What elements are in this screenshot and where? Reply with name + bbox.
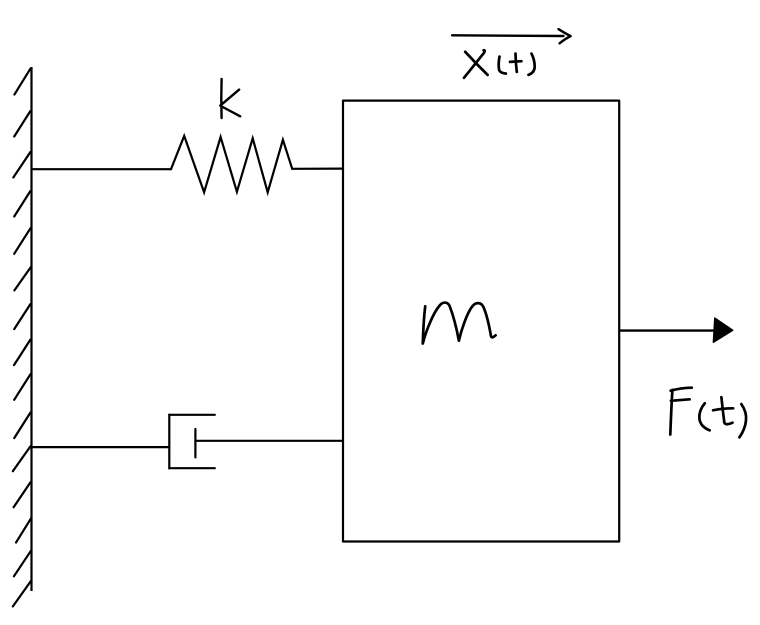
arrow F(t) filled head (713, 318, 732, 342)
label x(t) (464, 50, 535, 78)
label k (spring constant) (220, 79, 240, 118)
label F(t) (670, 388, 746, 438)
damper B (dashpot cylinder) (169, 415, 215, 469)
wire: spring to mass (292, 168, 343, 170)
label m (mass) (423, 303, 496, 344)
wire: wall to spring (32, 168, 172, 170)
damper piston plate (194, 429, 196, 457)
arrow x(t) head (559, 29, 571, 43)
wall (13, 67, 32, 607)
arrow F(t) shaft (620, 329, 716, 331)
mass block (343, 101, 619, 542)
spring K (zigzag) (171, 136, 292, 192)
arrow x(t) shaft (452, 34, 563, 37)
wire: wall to damper (32, 446, 170, 448)
wire: damper rod to mass (195, 440, 343, 442)
